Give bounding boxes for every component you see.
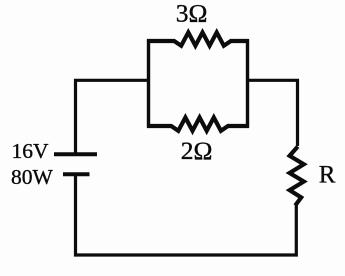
svg-text:80W: 80W — [11, 165, 54, 189]
svg-text:2Ω: 2Ω — [181, 136, 213, 165]
svg-text:R: R — [319, 161, 336, 188]
svg-text:16V: 16V — [12, 139, 50, 163]
svg-text:3Ω: 3Ω — [176, 0, 208, 28]
